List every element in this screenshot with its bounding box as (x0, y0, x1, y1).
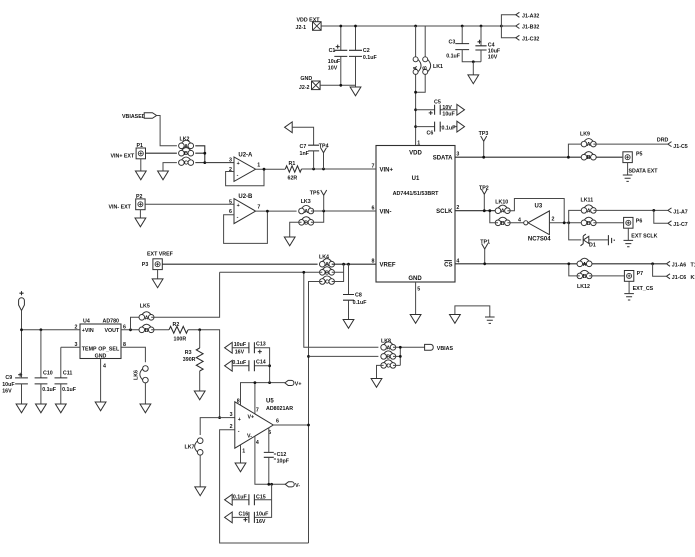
svg-text:C5: C5 (434, 100, 441, 106)
jumper LK10 (495, 199, 510, 227)
wire OP_SEL to LK6 (121, 347, 145, 362)
wire U2-A output (256, 168, 286, 170)
svg-text:62R: 62R (288, 175, 298, 181)
connector J2-2 GND (299, 76, 320, 91)
svg-text:2: 2 (229, 167, 232, 173)
svg-text:2: 2 (75, 324, 78, 330)
wire LK2 right bus (195, 146, 205, 163)
svg-text:C15: C15 (256, 494, 266, 500)
svg-text:0.1uF: 0.1uF (442, 125, 457, 131)
capacitor C5 (414, 100, 464, 118)
wire branch to LK11-A (569, 210, 584, 222)
jumper LK6 (134, 366, 151, 413)
svg-text:B: B (386, 354, 390, 360)
svg-text:+: + (238, 417, 241, 423)
svg-text:C11: C11 (63, 371, 72, 377)
svg-text:J1-A6: J1-A6 (672, 263, 686, 269)
ground under C3/C4 (468, 75, 479, 84)
ground under LK2-C (158, 171, 169, 180)
jumper LK2 (179, 136, 194, 166)
wire V- rail pin 4 (255, 436, 285, 484)
wire to J1-C6 (653, 264, 666, 277)
svg-text:C12: C12 (277, 452, 287, 458)
svg-text:B: B (184, 151, 188, 157)
svg-text:A: A (587, 208, 591, 214)
inverter U3 NC7S04 (518, 204, 555, 243)
wire LK5-A to LK4-B branch (151, 272, 219, 317)
ground under U1 (410, 315, 421, 324)
wire branch to LK9-A (568, 144, 584, 157)
wire branch to D1 (569, 223, 582, 240)
svg-text:VDD: VDD (409, 151, 422, 157)
test point TP5 (310, 190, 327, 211)
connector P2 (109, 194, 146, 218)
power terminal + (19, 291, 25, 311)
connector P6 (624, 217, 658, 246)
node J1-C7 (668, 221, 688, 228)
wire LK9-A to J1-C5 (593, 143, 667, 145)
svg-text:16V: 16V (2, 389, 12, 395)
svg-text:SDATA EXT: SDATA EXT (629, 168, 659, 174)
svg-text:+: + (237, 161, 240, 167)
svg-text:6: 6 (276, 419, 279, 425)
svg-text:LK9: LK9 (580, 132, 590, 138)
wire LK4 right bus (332, 264, 344, 281)
jumper LK12 (577, 258, 592, 290)
svg-text:C10: C10 (43, 371, 53, 377)
svg-text:-: - (237, 214, 239, 220)
svg-text:J1-C32: J1-C32 (522, 37, 539, 43)
wire LK11-A to J1-A7 (593, 209, 667, 211)
svg-text:A: A (325, 262, 329, 268)
svg-text:3: 3 (230, 412, 233, 418)
svg-text:4: 4 (518, 217, 521, 223)
ground under C2 (350, 87, 361, 96)
capacitor C15 0.1uF (232, 494, 271, 505)
capacitor C11 0.1uF (55, 347, 77, 413)
jumper LK7 (185, 438, 206, 496)
wire LK2-C to ground (163, 163, 177, 171)
wire C15 C16 riser (254, 484, 271, 517)
svg-text:2: 2 (230, 424, 233, 430)
wire +VIN rail (22, 311, 81, 378)
wire LK3-B right up (311, 211, 324, 222)
jumper LK11 (581, 197, 597, 227)
svg-text:4: 4 (256, 440, 259, 446)
wire GND rail (320, 84, 355, 86)
wire feedback pin 2 (220, 430, 309, 543)
svg-text:0.1uF: 0.1uF (363, 55, 378, 61)
svg-text:C: C (325, 280, 329, 286)
svg-text:NC7S04: NC7S04 (528, 237, 551, 243)
svg-text:+VIN: +VIN (82, 328, 94, 334)
svg-text:B: B (501, 221, 505, 227)
svg-text:U2-B: U2-B (238, 194, 253, 200)
svg-text:D1: D1 (589, 242, 596, 248)
svg-text:LK1: LK1 (433, 64, 443, 70)
capacitor C9 10uF 16V (2, 373, 28, 413)
svg-text:VIN-: VIN- (380, 209, 392, 215)
svg-text:A: A (413, 66, 419, 70)
svg-text:10uF: 10uF (328, 59, 341, 65)
wire branch to LK12-B (569, 264, 580, 276)
svg-text:C8: C8 (355, 292, 362, 298)
svg-text:GND: GND (300, 76, 312, 82)
svg-text:J1-C5: J1-C5 (673, 144, 687, 150)
svg-text:0.1uF: 0.1uF (233, 494, 248, 500)
svg-text:10V: 10V (328, 66, 338, 72)
wire LK4-A to U1 VREF (332, 263, 376, 265)
svg-text:J1-B32: J1-B32 (522, 25, 539, 31)
svg-text:100R: 100R (174, 337, 187, 343)
node J1-A32 (501, 12, 539, 26)
wire LK3-A to U1 pin 6 (311, 210, 376, 212)
jumper LK5 (139, 303, 154, 334)
wire LK11-B to P6 (593, 222, 623, 224)
connector P5 (623, 151, 658, 181)
svg-text:LK12: LK12 (577, 284, 590, 290)
svg-text:5: 5 (229, 199, 232, 205)
connector P7 (624, 271, 653, 301)
wire SDATA net (455, 156, 622, 158)
svg-text:CS: CS (444, 262, 452, 268)
svg-text:8: 8 (237, 398, 240, 404)
node J1-B32 (501, 24, 539, 31)
capacitor C14 0.1uF (232, 360, 269, 372)
jumper LK3 (299, 199, 314, 226)
wire pin 1 to ground (240, 445, 242, 463)
svg-text:EXT VREF: EXT VREF (147, 251, 174, 257)
svg-text:OP_SEL: OP_SEL (98, 346, 120, 352)
diode D1 (581, 234, 596, 248)
ground under P2 (135, 218, 146, 227)
connector J2-1 VDD EXT (296, 18, 322, 32)
svg-text:10V: 10V (488, 55, 498, 61)
svg-text:LK2: LK2 (180, 136, 190, 142)
node V- (285, 482, 300, 489)
svg-text:C3: C3 (449, 40, 456, 46)
svg-text:390R: 390R (183, 357, 196, 363)
wire VBIASED to LK2-A (157, 116, 177, 146)
svg-text:C1: C1 (329, 48, 336, 54)
svg-text:A: A (386, 345, 390, 351)
svg-text:P3: P3 (142, 262, 149, 268)
svg-text:B: B (587, 155, 591, 161)
capacitor C2 (349, 26, 377, 87)
wire V+ rail pins 8 7 (241, 383, 285, 414)
wire to ground (472, 62, 474, 75)
svg-text:C7: C7 (300, 144, 307, 150)
svg-text:B: B (145, 328, 149, 334)
svg-text:AD8021AR: AD8021AR (266, 406, 293, 412)
wire LK4-C branch down (309, 282, 323, 353)
svg-text:4: 4 (103, 364, 106, 370)
wire LK4-B long branch (220, 272, 379, 347)
capacitor C8 0.1uF (343, 264, 367, 328)
svg-text:EXT SCLK: EXT SCLK (631, 233, 657, 239)
svg-text:P5: P5 (636, 151, 643, 157)
wire U3 output (549, 222, 581, 224)
node J1-A7 (668, 208, 688, 215)
svg-text:SCLK: SCLK (436, 209, 453, 215)
resistor R2 100R (169, 322, 188, 343)
svg-text:16V: 16V (235, 349, 245, 355)
svg-text:C2: C2 (363, 48, 370, 54)
svg-text:-: - (237, 172, 239, 178)
node VBIASED (122, 113, 157, 120)
svg-text:DRD: DRD (657, 138, 669, 144)
svg-text:J1-C7: J1-C7 (673, 222, 687, 228)
capacitor C12 10pF (264, 428, 290, 485)
svg-text:LK6: LK6 (134, 370, 140, 380)
node DRD J1-C5 (657, 138, 688, 150)
svg-text:TP5: TP5 (310, 190, 320, 196)
svg-text:C9: C9 (5, 375, 12, 381)
svg-text:EXT_CS: EXT_CS (633, 286, 654, 292)
svg-text:C: C (386, 363, 390, 369)
svg-text:1: 1 (257, 163, 260, 169)
wire LK10-B to U3 input (507, 222, 523, 224)
svg-text:B: B (325, 270, 329, 276)
svg-text:A: A (304, 209, 308, 215)
svg-text:K1: K1 (691, 275, 695, 281)
ground under P1 (135, 171, 146, 180)
svg-text:B: B (423, 66, 429, 70)
test point TP1 (480, 239, 490, 265)
svg-text:VIN+ EXT: VIN+ EXT (111, 153, 135, 159)
svg-text:U4: U4 (83, 318, 90, 324)
resistor R3 390R (183, 330, 205, 400)
svg-text:V+: V+ (295, 382, 302, 388)
svg-text:U3: U3 (535, 204, 543, 210)
wire U2-A feedback (226, 169, 264, 186)
connector P1 (111, 143, 146, 171)
wire LK7 branch (200, 418, 219, 435)
svg-text:LK7: LK7 (185, 445, 195, 451)
wire LK8 right bus to VBIAS (393, 347, 425, 365)
svg-text:VIN- EXT: VIN- EXT (109, 204, 132, 210)
capacitor C7 1nF (292, 127, 319, 169)
svg-text:VBIAS: VBIAS (437, 346, 454, 352)
svg-text:VIN+: VIN+ (380, 167, 394, 173)
svg-text:1: 1 (417, 140, 420, 146)
svg-text:TEMP: TEMP (82, 346, 97, 352)
power arrow at C15 (225, 494, 233, 505)
wire U2-B feedback (224, 211, 268, 243)
wire to U2-A pin 3 (205, 162, 234, 164)
svg-text:U5: U5 (266, 399, 274, 405)
op-amp U2-B (229, 194, 260, 224)
svg-text:10uF: 10uF (234, 342, 247, 348)
svg-text:AD7441/51/53BRT: AD7441/51/53BRT (393, 191, 440, 197)
svg-text:0.1uF: 0.1uF (232, 360, 247, 366)
wire LK8-C to ground (377, 365, 384, 378)
svg-text:5: 5 (417, 287, 420, 293)
svg-text:C16: C16 (239, 511, 249, 517)
capacitor C3 (446, 26, 481, 62)
svg-text:10uF: 10uF (442, 112, 455, 118)
svg-text:J2-1: J2-1 (296, 25, 307, 31)
svg-text:0.1uF: 0.1uF (446, 54, 461, 60)
svg-text:+: + (237, 203, 240, 209)
svg-text:LK5: LK5 (140, 303, 150, 309)
svg-text:1nF: 1nF (300, 151, 310, 157)
svg-text:J1-A32: J1-A32 (522, 13, 539, 19)
capacitor C16 10uF 16V (232, 511, 269, 525)
wire branch to LK10-B (490, 211, 498, 223)
svg-text:T1: T1 (691, 263, 695, 269)
svg-text:2: 2 (552, 217, 555, 223)
svg-text:B: B (587, 221, 591, 227)
wire GND pin 4 (100, 359, 102, 403)
node J1-C6 (666, 274, 695, 281)
IC U1 AD7441/51/53BRT (376, 146, 455, 283)
svg-text:A: A (184, 144, 188, 150)
wire C13 C14 riser (254, 348, 269, 383)
svg-text:SDATA: SDATA (433, 156, 453, 162)
wire TEMP pin 3 (61, 346, 80, 348)
wire R1 to U1 pin 7 (302, 168, 377, 170)
wire VOUT branch to LK5-A (131, 317, 140, 330)
svg-text:A: A (587, 142, 591, 148)
svg-text:-: - (238, 429, 240, 435)
op-amp U5 AD8021AR (230, 398, 294, 454)
node VBIAS (425, 344, 454, 352)
resistor R1 62R (285, 161, 301, 181)
svg-text:J2-2: J2-2 (299, 85, 310, 91)
junction C3/C4 (472, 60, 475, 63)
svg-text:V+: V+ (248, 414, 255, 420)
test point TP4 (319, 143, 329, 169)
power arrow at C14 (225, 360, 233, 371)
svg-text:VREF: VREF (380, 262, 396, 268)
svg-text:10uF: 10uF (256, 511, 269, 517)
power arrow at C7 (285, 122, 293, 133)
svg-text:0.1uF: 0.1uF (353, 300, 368, 306)
IC U4 AD780 (80, 318, 121, 359)
wire VOUT pin 6 (121, 329, 139, 331)
svg-text:VBIASED: VBIASED (122, 114, 146, 120)
wire R2 to buffer input (188, 330, 220, 418)
svg-text:10uF: 10uF (2, 382, 15, 388)
jumper LK4 (319, 254, 335, 285)
svg-text:V-: V- (247, 433, 252, 439)
svg-text:10pF: 10pF (277, 458, 290, 464)
svg-text:10V: 10V (442, 105, 452, 111)
capacitor C6 (414, 121, 464, 136)
capacitor C4 (475, 26, 501, 62)
wire GND pin 5 (415, 282, 417, 315)
svg-text:A: A (501, 209, 505, 215)
svg-text:J1-C6: J1-C6 (672, 275, 686, 281)
test point TP2 (479, 185, 489, 212)
svg-text:LK3: LK3 (301, 199, 311, 205)
svg-text:C14: C14 (256, 360, 266, 366)
cell symbol (608, 235, 615, 245)
wire D1 to cell (589, 239, 608, 241)
connector P3 EXT VREF (142, 251, 174, 287)
power arrow at C13 (225, 342, 233, 353)
svg-text:7: 7 (256, 408, 259, 414)
wire LK12-B to P7 (589, 275, 624, 277)
op-amp U2-A (229, 152, 260, 181)
wire P2 to U2-B pin 5 (145, 203, 234, 205)
capacitor C10 0.1uF (35, 330, 57, 413)
wire U2-B output to LK3 (256, 210, 297, 212)
svg-text:VOUT: VOUT (104, 328, 119, 334)
svg-text:3: 3 (229, 158, 232, 164)
svg-text:B: B (304, 220, 308, 226)
node V+ (285, 380, 302, 387)
wire CS net (455, 263, 666, 265)
svg-text:B: B (583, 274, 587, 280)
svg-text:C6: C6 (427, 131, 434, 137)
svg-text:R3: R3 (185, 350, 192, 356)
capacitor C13 10uF 16V (232, 342, 266, 356)
svg-text:LK11: LK11 (581, 197, 594, 203)
svg-text:V-: V- (295, 483, 300, 489)
svg-text:TP4: TP4 (319, 143, 329, 149)
svg-text:U1: U1 (412, 176, 420, 182)
svg-text:C13: C13 (256, 342, 266, 348)
svg-text:GND: GND (95, 353, 107, 359)
jumper LK9 (580, 132, 596, 162)
svg-text:7: 7 (257, 205, 260, 211)
svg-text:TP2: TP2 (479, 185, 489, 191)
svg-text:J1-A7: J1-A7 (673, 209, 687, 215)
svg-text:A: A (145, 315, 149, 321)
svg-text:0.1uF: 0.1uF (42, 387, 57, 393)
svg-text:0.1uF: 0.1uF (62, 387, 77, 393)
svg-text:GND: GND (408, 276, 422, 282)
test point TP3 (479, 131, 489, 158)
wire SCLK net (455, 210, 495, 212)
node J1-C32 (501, 26, 539, 43)
wire to J1-C7 (654, 210, 668, 223)
wire to LK8-B (309, 355, 379, 357)
svg-text:P6: P6 (636, 218, 643, 224)
svg-text:A: A (583, 262, 587, 268)
wire LK10-A bypass over U3 (507, 199, 564, 223)
ground bridge AGND to DGND (450, 306, 495, 324)
wire VDD rail (321, 25, 501, 27)
svg-text:U2-A: U2-A (238, 152, 253, 158)
jumper LK8 (381, 339, 396, 370)
power arrow at C16 (225, 512, 233, 523)
wire buffer +input (220, 417, 235, 419)
jumper LK1 (413, 26, 443, 146)
wire LK5-B to R2 (151, 329, 169, 331)
svg-text:16V: 16V (256, 519, 266, 525)
svg-text:LK10: LK10 (495, 199, 508, 205)
node J1-A6 (651, 261, 695, 268)
svg-text:8: 8 (372, 259, 375, 265)
capacitor C1 (328, 26, 348, 85)
wire P1 to LK2-B (146, 152, 177, 154)
junction dots VDD rail (339, 25, 342, 28)
wire P3 to LK4-A (162, 263, 317, 265)
wire LK3-B to ground (290, 222, 302, 237)
wire output pin 6 (273, 424, 308, 426)
svg-text:AD780: AD780 (103, 318, 120, 324)
svg-text:C: C (184, 161, 188, 167)
svg-text:6: 6 (229, 209, 232, 215)
svg-text:R2: R2 (173, 322, 180, 328)
wire buffered net vertical (308, 352, 310, 543)
svg-text:P7: P7 (637, 271, 644, 277)
svg-text:1: 1 (242, 448, 245, 454)
